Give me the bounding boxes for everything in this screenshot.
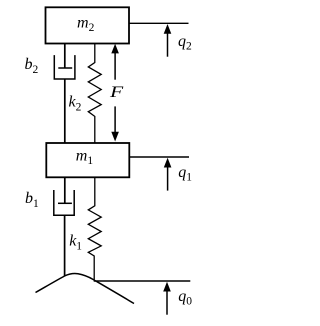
spring k2 — [88, 44, 101, 143]
damper b2 piston stem — [64, 44, 66, 69]
wire: q1 reference line — [130, 156, 189, 158]
damper b1 piston plate — [58, 202, 72, 204]
mass m1 box — [46, 143, 129, 177]
wire: damper b1 lower rod to ground — [64, 215, 66, 276]
arrow q1 — [164, 158, 172, 191]
wire: damper b2 lower rod to mass m1 — [64, 79, 66, 143]
force F up arrow — [111, 44, 119, 80]
arrow q0 — [163, 282, 171, 315]
spring k1 — [88, 177, 101, 279]
damper b2 piston plate — [58, 67, 72, 69]
wire: q0 reference line — [94, 280, 191, 282]
mass m2 box — [46, 7, 130, 43]
damper b1 cylinder — [54, 190, 74, 215]
svg-text:F: F — [109, 83, 124, 101]
arrow q2 — [164, 24, 172, 57]
wire: q2 reference line — [129, 22, 188, 24]
ground surface bump — [36, 274, 135, 304]
damper b2 cylinder — [54, 55, 75, 79]
damper b1 piston stem — [64, 177, 66, 203]
force F down arrow — [111, 106, 119, 141]
